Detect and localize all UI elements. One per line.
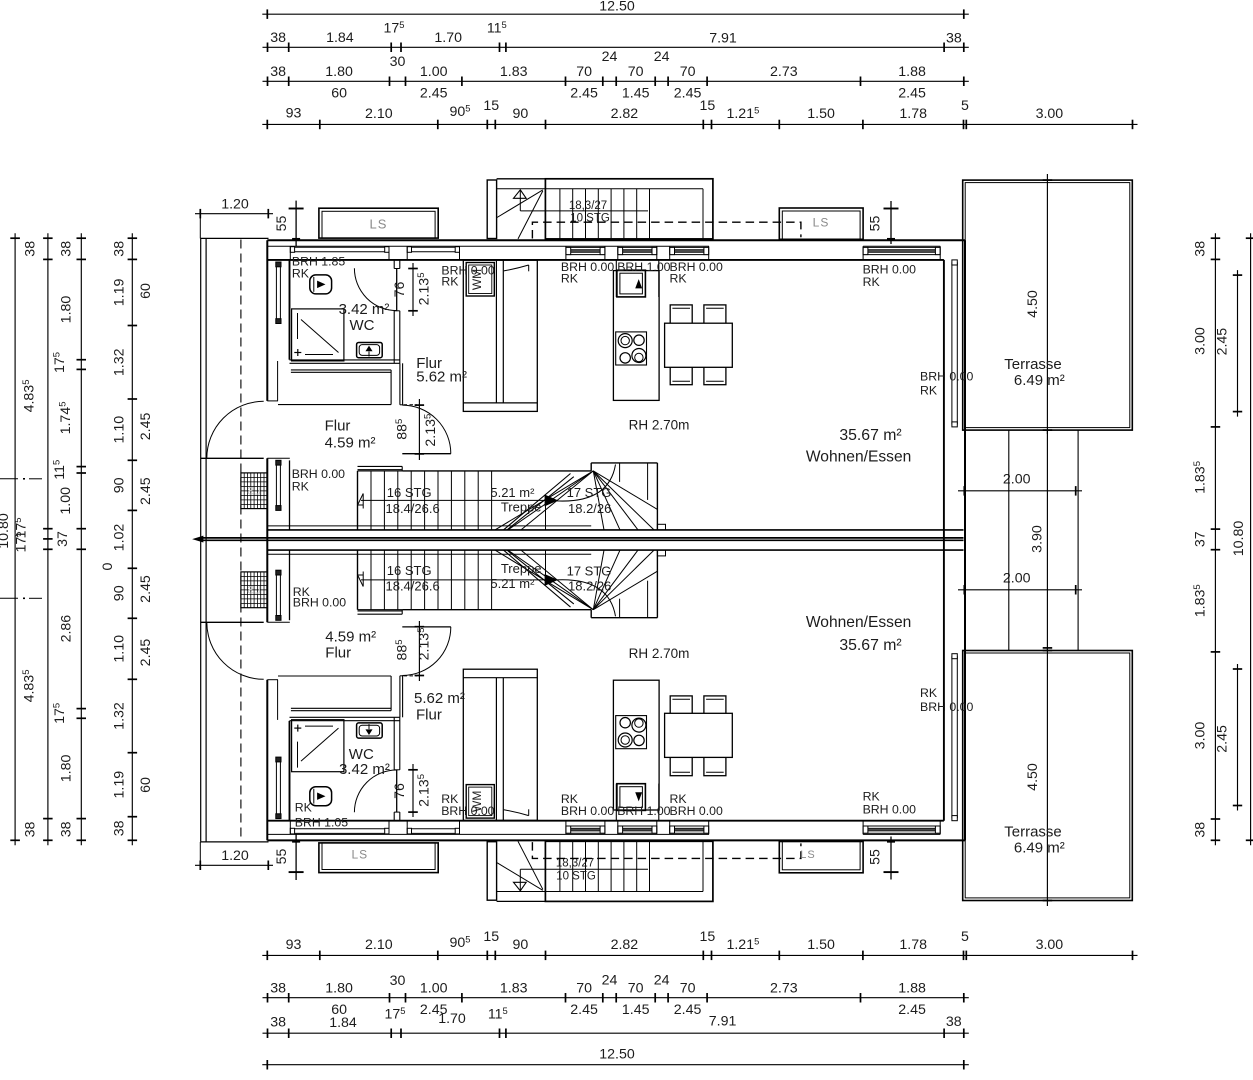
shower top unit	[292, 309, 344, 361]
stair raised zone right	[590, 463, 592, 471]
svg-text:RK: RK	[292, 267, 310, 281]
window bottom W0a BRH1.05	[290, 828, 389, 830]
wall top outer	[267, 239, 965, 241]
svg-text:18,3/27: 18,3/27	[569, 200, 607, 212]
svg-text:10.80: 10.80	[1231, 521, 1247, 557]
svg-text:24: 24	[654, 49, 670, 65]
svg-text:35.67 m²: 35.67 m²	[839, 637, 901, 654]
washbasin bottom unit	[357, 723, 383, 738]
door lintel dashes top	[404, 404, 418, 406]
svg-text:Terrasse: Terrasse	[1004, 824, 1062, 841]
svg-text:LS: LS	[800, 849, 815, 861]
svg-text:30: 30	[390, 54, 406, 70]
svg-text:3.00: 3.00	[1036, 937, 1064, 953]
svg-text:RK: RK	[561, 271, 579, 285]
entry dashed line top	[532, 222, 801, 238]
svg-text:1.70: 1.70	[434, 30, 462, 46]
outdoor stair bottom railing diagonals	[497, 863, 543, 891]
svg-text:BRH 0.00: BRH 0.00	[920, 700, 973, 714]
party wall center lines	[201, 537, 964, 539]
svg-text:2.10: 2.10	[365, 106, 393, 122]
svg-text:RK: RK	[292, 480, 310, 494]
svg-text:2.00: 2.00	[1003, 472, 1031, 488]
svg-text:6.49 m²: 6.49 m²	[1014, 839, 1065, 856]
LS box top-right	[779, 208, 863, 239]
svg-text:38: 38	[23, 822, 39, 838]
window top W0a BRH1.85	[290, 246, 389, 248]
hatched shaft top	[241, 473, 267, 509]
stair start marker	[362, 494, 364, 509]
svg-text:90: 90	[112, 477, 128, 493]
svg-text:Treppe: Treppe	[501, 561, 542, 576]
svg-text:18.2/26: 18.2/26	[568, 501, 611, 516]
svg-text:LS: LS	[247, 486, 260, 498]
svg-text:2.82: 2.82	[611, 106, 639, 122]
dim line top row4	[262, 123, 1137, 125]
party wall top line	[267, 529, 963, 531]
svg-text:1.45: 1.45	[622, 1002, 650, 1018]
WC top wall bottom unit	[290, 716, 400, 718]
svg-text:Flur: Flur	[325, 417, 351, 434]
stair hall top wall top unit	[358, 465, 403, 467]
washbasin top unit	[357, 343, 383, 358]
window right wall top 3.00	[951, 262, 953, 424]
svg-text:2.45: 2.45	[138, 412, 154, 440]
svg-text:1.83: 1.83	[500, 981, 528, 997]
svg-text:2.45: 2.45	[1215, 725, 1231, 753]
stair wall notch	[657, 550, 665, 556]
svg-text:38: 38	[270, 1015, 286, 1031]
dim line top row1	[262, 13, 969, 15]
svg-text:1.19: 1.19	[112, 278, 128, 306]
svg-text:2.82: 2.82	[611, 937, 639, 953]
entry niche wall stubs top	[615, 260, 617, 297]
svg-text:BRH 1.00: BRH 1.00	[617, 804, 670, 818]
svg-text:1.84: 1.84	[326, 30, 354, 46]
stair last straight tread partial	[545, 550, 547, 574]
svg-text:2.45: 2.45	[138, 639, 154, 667]
svg-text:55: 55	[274, 216, 290, 232]
party wall bottom line	[267, 549, 963, 551]
WC door top unit	[396, 268, 398, 310]
svg-text:18.4/26.6: 18.4/26.6	[385, 579, 439, 594]
svg-text:1.80: 1.80	[325, 64, 353, 80]
window right wall bottom 3.00	[951, 656, 953, 818]
flur divider wall bottom unit	[399, 676, 401, 718]
dim col right R2 upper 2.45	[1237, 270, 1239, 417]
svg-text:3.90: 3.90	[1030, 525, 1046, 553]
svg-text:Terrasse: Terrasse	[1004, 356, 1062, 373]
stair hall bottom wall bottom unit	[358, 613, 403, 615]
stair outline bottom	[357, 550, 359, 610]
svg-text:38: 38	[112, 820, 128, 836]
svg-text:2.10: 2.10	[365, 937, 393, 953]
svg-text:12.50: 12.50	[599, 0, 635, 15]
svg-text:1.00: 1.00	[420, 64, 448, 80]
svg-text:24: 24	[602, 973, 618, 989]
svg-text:38: 38	[1193, 241, 1209, 257]
flur divider wall top unit	[399, 363, 401, 405]
outdoor stair bottom start marker	[514, 882, 527, 891]
svg-text:2.45: 2.45	[674, 86, 702, 102]
door jambs left wall	[267, 400, 278, 402]
dim col right R3 overall 10.80	[1250, 233, 1252, 845]
svg-text:15: 15	[483, 929, 499, 945]
svg-text:1.32: 1.32	[112, 348, 128, 376]
dim 3.90 between terraces	[1046, 430, 1048, 651]
wall bottom outer	[267, 839, 965, 841]
svg-text:38: 38	[946, 31, 962, 47]
centerline marker left lower	[0, 597, 18, 599]
niche lines top unit	[291, 369, 391, 371]
svg-text:RK: RK	[863, 275, 881, 289]
svg-text:7.91: 7.91	[709, 31, 737, 47]
outdoor stair top railing diagonals	[497, 190, 543, 218]
dining table bottom unit	[665, 713, 733, 757]
svg-text:1.70: 1.70	[438, 1011, 466, 1027]
svg-text:38: 38	[946, 1014, 962, 1030]
wall bottom inner	[267, 820, 944, 822]
svg-text:RK: RK	[920, 686, 938, 700]
svg-text:18,3/27: 18,3/27	[556, 858, 594, 870]
roof overhang dashed line	[240, 240, 242, 842]
svg-text:3.00: 3.00	[1036, 106, 1064, 122]
window top W2 entry	[618, 246, 657, 248]
svg-text:1.88: 1.88	[898, 981, 926, 997]
wall bottom mid lines	[267, 833, 709, 835]
dim 1.20 top-left	[195, 213, 273, 215]
svg-text:1.20: 1.20	[221, 197, 249, 213]
svg-text:2.45: 2.45	[138, 575, 154, 603]
svg-text:30: 30	[390, 973, 406, 989]
porch column top	[487, 180, 496, 239]
wall left inner face mid segments	[289, 460, 291, 530]
wall top mid lines	[267, 245, 709, 247]
svg-text:LS: LS	[351, 847, 368, 861]
svg-text:4.50: 4.50	[1025, 290, 1041, 318]
svg-text:5.62 m²: 5.62 m²	[414, 690, 465, 707]
closet unit bottom	[463, 669, 537, 820]
LS box top-left	[319, 208, 438, 238]
svg-text:70: 70	[680, 64, 696, 80]
dim 2.00 top	[958, 490, 1082, 492]
outdoor stair top treads	[559, 189, 561, 239]
svg-text:1.80: 1.80	[325, 981, 353, 997]
dim 88.5 flur door top	[418, 399, 420, 460]
dim line bottom row3	[263, 997, 969, 999]
svg-text:4.59 m²: 4.59 m²	[325, 628, 376, 645]
front entry leaf square bottom	[617, 784, 646, 811]
svg-text:37: 37	[55, 531, 71, 547]
outdoor stair bottom outline	[545, 841, 713, 901]
terrace connector lines	[1008, 430, 1010, 650]
window bottom W2 entry	[618, 825, 657, 827]
svg-text:LS: LS	[370, 217, 388, 232]
wall left inner lower	[289, 721, 291, 821]
window top W0b	[407, 246, 459, 248]
toilet top unit	[310, 275, 332, 294]
WC bottom wall top unit	[290, 359, 400, 361]
svg-text:3.42 m²: 3.42 m²	[339, 301, 390, 318]
flur door arc bottom unit	[402, 627, 451, 676]
stair winder fan left	[495, 550, 593, 610]
centerline marker left upper	[0, 478, 18, 480]
stair winder fan right	[593, 471, 604, 530]
stair last straight tread partial	[545, 506, 547, 530]
window left WC bottom	[275, 757, 277, 819]
window top W1	[566, 246, 605, 248]
dim col left B	[47, 233, 49, 845]
stair outline top	[357, 471, 359, 530]
svg-text:37: 37	[1193, 531, 1209, 547]
door lintel dashes bottom	[404, 675, 418, 677]
svg-text:RH 2.70m: RH 2.70m	[629, 646, 690, 661]
cooktop bottom unit	[616, 716, 647, 749]
svg-text:18.2/26: 18.2/26	[568, 579, 611, 594]
svg-text:90: 90	[112, 585, 128, 601]
svg-text:16 STG: 16 STG	[387, 563, 432, 578]
toilet bottom unit	[310, 787, 332, 806]
dim 55 bottom-left	[295, 835, 297, 881]
svg-text:15: 15	[483, 98, 499, 114]
terrace bottom outline	[963, 651, 1133, 901]
svg-text:3.00: 3.00	[1193, 722, 1209, 750]
svg-text:5: 5	[961, 929, 969, 945]
svg-text:2.45: 2.45	[570, 86, 598, 102]
svg-text:2.45: 2.45	[674, 1002, 702, 1018]
svg-text:70: 70	[576, 64, 592, 80]
svg-text:1.50: 1.50	[807, 937, 835, 953]
svg-text:BRH 1.05: BRH 1.05	[295, 815, 348, 829]
svg-text:12.50: 12.50	[599, 1047, 635, 1063]
svg-text:RK: RK	[295, 801, 313, 815]
svg-text:1.83: 1.83	[500, 64, 528, 80]
outdoor stair top start marker	[514, 190, 527, 199]
closet unit top	[463, 260, 537, 411]
svg-text:1.78: 1.78	[899, 937, 927, 953]
chairs bottom unit	[670, 696, 692, 718]
svg-text:55: 55	[868, 216, 884, 232]
entry door top unit (left wall)	[201, 457, 264, 459]
svg-text:BRH 0.00: BRH 0.00	[561, 804, 614, 818]
svg-text:Flur: Flur	[416, 707, 442, 724]
dim line top row3	[263, 80, 969, 82]
LS box bottom-right	[779, 842, 863, 873]
wall left outer	[266, 240, 268, 401]
stair winder fan right	[593, 550, 604, 610]
svg-text:BRH 0.00: BRH 0.00	[441, 804, 494, 818]
washing machine bottom unit	[466, 785, 494, 819]
svg-text:2.86: 2.86	[59, 615, 75, 643]
svg-text:38: 38	[59, 241, 75, 257]
svg-text:2.00: 2.00	[1003, 571, 1031, 587]
svg-text:1.10: 1.10	[112, 635, 128, 663]
stair handrail double diagonal	[504, 474, 571, 530]
window bottom W1	[566, 825, 605, 827]
svg-text:16 STG: 16 STG	[387, 485, 432, 500]
stair handrail double diagonal	[504, 550, 571, 607]
svg-text:2.45: 2.45	[570, 1002, 598, 1018]
dim 4.50 bottom terrace	[1046, 647, 1048, 906]
svg-text:Flur: Flur	[325, 645, 351, 662]
svg-text:2.45: 2.45	[420, 86, 448, 102]
svg-text:1.00: 1.00	[420, 981, 448, 997]
svg-text:70: 70	[576, 981, 592, 997]
svg-text:1.78: 1.78	[899, 106, 927, 122]
stair walk line with arrow	[361, 499, 546, 501]
porch strip left wall	[200, 238, 202, 842]
kitchen island top unit	[613, 271, 659, 401]
svg-text:5.21 m²: 5.21 m²	[490, 485, 535, 500]
dim line bottom row4	[262, 954, 1137, 956]
svg-text:93: 93	[286, 937, 302, 953]
dim line bottom row2	[263, 1032, 969, 1034]
svg-text:38: 38	[270, 30, 286, 46]
dim 55 top-left	[295, 201, 297, 246]
svg-text:Wohnen/Essen: Wohnen/Essen	[806, 448, 911, 465]
svg-text:76: 76	[392, 282, 408, 298]
window left flur bottom 90	[275, 570, 277, 620]
dim 55 bottom-right	[890, 837, 892, 880]
washing machine top unit	[466, 263, 494, 297]
svg-text:BRH 0.00: BRH 0.00	[293, 596, 346, 610]
kitchen island bottom unit	[613, 680, 659, 810]
svg-text:4.50: 4.50	[1025, 763, 1041, 791]
niche lines bottom unit	[291, 710, 391, 712]
svg-text:15: 15	[700, 929, 716, 945]
wall right outer	[964, 240, 966, 840]
entry dashed line bottom	[532, 842, 801, 858]
stair wall notch	[657, 524, 665, 530]
svg-text:15: 15	[700, 98, 716, 114]
svg-text:38: 38	[112, 241, 128, 257]
svg-text:Wohnen/Essen: Wohnen/Essen	[806, 614, 911, 631]
wall left inner upper	[289, 260, 291, 360]
window left WC top	[275, 262, 277, 324]
svg-text:RK: RK	[863, 790, 881, 804]
porch strip caps	[201, 237, 269, 239]
svg-text:5.21 m²: 5.21 m²	[490, 576, 535, 591]
svg-text:4.59 m²: 4.59 m²	[325, 434, 376, 451]
svg-text:2.73: 2.73	[770, 981, 798, 997]
svg-text:BRH 0.00: BRH 0.00	[863, 262, 916, 276]
party wall leaf face lines	[267, 525, 591, 527]
porch column bottom	[487, 842, 496, 901]
svg-text:1.10: 1.10	[112, 416, 128, 444]
svg-text:1.84: 1.84	[329, 1015, 357, 1031]
chairs top unit	[670, 305, 692, 327]
svg-text:17 STG: 17 STG	[567, 485, 612, 500]
wall right inner	[943, 260, 945, 821]
stair treads	[370, 550, 372, 610]
svg-text:60: 60	[138, 777, 154, 793]
svg-text:93: 93	[286, 106, 302, 122]
window top W3	[670, 246, 709, 248]
svg-text:55: 55	[868, 849, 884, 865]
flur door arc top unit	[402, 405, 451, 454]
svg-text:60: 60	[138, 283, 154, 299]
svg-text:90: 90	[513, 937, 529, 953]
svg-text:RK: RK	[920, 384, 938, 398]
dim 88.5 flur door bottom	[418, 621, 420, 681]
svg-text:BRH 1.00: BRH 1.00	[617, 260, 670, 274]
outdoor stair top outline	[545, 179, 713, 239]
svg-text:5.62 m²: 5.62 m²	[416, 369, 467, 386]
svg-text:10 STG: 10 STG	[556, 871, 596, 883]
flur door leaf wall line top	[402, 453, 451, 455]
svg-text:1.45: 1.45	[622, 86, 650, 102]
svg-text:38: 38	[59, 821, 75, 837]
WC right wall top unit	[393, 260, 395, 269]
svg-text:RK: RK	[670, 271, 688, 285]
wall top inner	[267, 259, 944, 261]
svg-text:1.19: 1.19	[112, 771, 128, 799]
svg-text:24: 24	[654, 973, 670, 989]
svg-text:2.45: 2.45	[898, 1002, 926, 1018]
svg-text:1.32: 1.32	[112, 702, 128, 730]
svg-text:76: 76	[392, 783, 408, 799]
window bottom W0b	[407, 828, 459, 830]
svg-text:2.45: 2.45	[898, 86, 926, 102]
window left flur top 90	[275, 460, 277, 510]
dim line bottom row1	[262, 1064, 969, 1066]
dim 4.50 top terrace	[1046, 174, 1048, 434]
flur door leaf wall line bottom	[402, 626, 451, 628]
svg-text:LS: LS	[247, 585, 260, 597]
dim col left A overall 10.80	[14, 233, 16, 845]
svg-text:1.02: 1.02	[112, 524, 128, 552]
stair walk line curve	[556, 465, 616, 502]
dim col left C	[80, 233, 82, 845]
stair raised zone right	[590, 610, 592, 618]
svg-text:6.49 m²: 6.49 m²	[1014, 372, 1065, 389]
dim 76 WC door bottom	[412, 764, 414, 817]
svg-text:BRH 0.00: BRH 0.00	[863, 803, 916, 817]
svg-text:7.91: 7.91	[709, 1014, 737, 1030]
stair start marker	[362, 572, 364, 587]
outdoor stair bottom landing lines	[497, 891, 703, 893]
dim col left D	[131, 233, 133, 845]
cooktop top unit	[616, 332, 647, 365]
stair walk line curve	[556, 580, 616, 617]
svg-text:1.50: 1.50	[807, 106, 835, 122]
entry niche wall stubs bottom	[615, 784, 617, 821]
party wall left end arrow	[194, 536, 204, 542]
wall left thin face	[277, 361, 279, 401]
svg-text:38: 38	[270, 64, 286, 80]
svg-text:24: 24	[602, 49, 618, 65]
svg-text:1.20: 1.20	[221, 848, 249, 864]
WC right wall bottom unit	[393, 812, 395, 821]
dim 1.20 bottom-left	[195, 864, 273, 866]
svg-text:2.73: 2.73	[770, 64, 798, 80]
dim 76 WC door top	[412, 263, 414, 316]
svg-text:10.80: 10.80	[0, 513, 12, 549]
svg-text:LS: LS	[813, 216, 830, 230]
front entry leaf square top	[617, 270, 646, 297]
dim 55 top-right	[890, 201, 892, 244]
svg-text:0: 0	[100, 562, 116, 570]
shower bottom unit	[292, 720, 344, 772]
dining table top unit	[665, 323, 733, 367]
stair treads	[370, 471, 372, 530]
window bottom W3	[670, 825, 709, 827]
svg-text:3.00: 3.00	[1193, 327, 1209, 355]
dim col right R1	[1214, 233, 1216, 845]
svg-text:17 STG: 17 STG	[567, 564, 612, 579]
WC door bottom unit	[396, 770, 398, 812]
dim 2.00 bottom	[958, 589, 1082, 591]
